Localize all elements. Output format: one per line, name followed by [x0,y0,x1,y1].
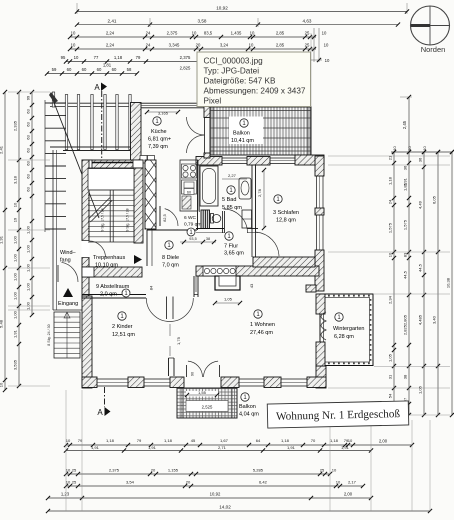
svg-text:10,41 qm: 10,41 qm [231,138,254,144]
balcony (bottom) deck [177,388,237,418]
svg-text:58: 58 [127,67,132,72]
svg-text:1,23: 1,23 [61,491,70,496]
svg-text:10: 10 [66,438,71,443]
svg-text:10: 10 [71,31,76,36]
svg-text:3,58: 3,58 [198,18,207,23]
top dimension chain row 3 [68,31,327,39]
wall: Schlafen south / Flur (y=257) [253,257,315,267]
section line A bottom marker [97,387,110,417]
door arc Schlafen [252,232,279,257]
svg-text:1,85: 1,85 [403,182,408,191]
svg-text:79: 79 [137,438,142,443]
svg-text:1,75: 1,75 [176,336,181,345]
svg-text:1,18: 1,18 [388,176,393,185]
pergola posts [50,92,133,151]
wintergarten west wall segments [316,294,325,366]
svg-text:2,78: 2,78 [257,188,262,197]
balcony (top) label plate [229,117,263,145]
svg-text:2,0 qm: 2,0 qm [100,292,117,298]
svg-text:9 Stg. 17,5 / 28: 9 Stg. 17,5 / 28 [126,208,130,231]
svg-text:63: 63 [26,135,31,140]
svg-text:1,91: 1,91 [287,445,296,450]
svg-text:10: 10 [192,31,197,36]
top dimension chain row 1 (10,92) [75,3,409,14]
svg-text:10,92: 10,92 [216,6,228,11]
wall stub Diele east jamb [194,276,198,297]
top-right guide verticals and 10 stub [311,28,330,107]
pergola top rail [50,103,133,106]
svg-text:1,00: 1,00 [13,310,18,319]
wall: west exterior (kinder) lower [82,296,92,388]
right dimension column A (x=394) [388,150,397,417]
svg-text:84: 84 [149,285,154,290]
wall: horizontal band below Treppenhaus (y=267) [82,267,142,277]
door windfang to treppenhaus [82,241,106,258]
svg-text:60: 60 [97,67,102,72]
svg-text:2,41: 2,41 [108,18,117,23]
section line A top marker [94,83,107,161]
svg-text:93,5: 93,5 [189,237,196,241]
svg-text:3,65 qm: 3,65 qm [224,251,244,257]
wintergarten top wall link [306,285,316,292]
left dimension column B (x=19) [13,90,22,388]
svg-text:1,18: 1,18 [164,438,173,443]
svg-text:1,05: 1,05 [388,353,393,362]
balcony (top) deck with railing [210,107,311,155]
Treppenhaus label and arrow [93,255,142,269]
room label Bad [222,173,247,211]
svg-text:1,00: 1,00 [26,225,31,234]
svg-text:25: 25 [72,467,77,472]
svg-text:70: 70 [311,438,316,443]
svg-text:60: 60 [82,67,87,72]
svg-text:Küche: Küche [151,129,167,135]
svg-text:A: A [97,408,103,417]
svg-text:31: 31 [388,374,393,379]
duct niche below wall [196,276,254,292]
svg-text:8 Stg. 24 / 30: 8 Stg. 24 / 30 [47,324,51,345]
svg-text:2,27: 2,27 [228,173,237,178]
svg-text:60: 60 [187,190,191,194]
svg-text:1,05: 1,05 [418,385,423,394]
svg-text:4,485: 4,485 [418,314,423,325]
svg-text:10: 10 [13,202,18,207]
bottom dimension chain row 5 [46,491,373,500]
extension lines bottom [66,390,430,511]
svg-text:2,335: 2,335 [13,120,18,131]
svg-text:83: 83 [403,252,408,257]
svg-text:7,0 qm: 7,0 qm [162,263,179,269]
svg-text:6,05: 6,05 [432,195,437,204]
wall: Bad/WC south + hatched pier [196,210,258,233]
room label Flur [224,232,244,257]
bottom dimension chain row 6 (14,02) [46,504,432,513]
chimney X-hatched column [145,160,156,229]
svg-text:1,18: 1,18 [114,55,123,60]
svg-text:2,45: 2,45 [402,120,407,129]
left dimension column C (x=5) [0,90,7,392]
bad washbasin [239,178,251,199]
kitchen counter with stove and sink [180,160,198,211]
svg-text:12,51 qm: 12,51 qm [112,332,135,338]
svg-text:1,575: 1,575 [388,222,393,233]
svg-text:10: 10 [332,467,337,472]
svg-text:14,02: 14,02 [219,504,231,509]
top dimension chain row 4 [68,28,330,107]
opening squiggle between Wohnen and Wintergarten [321,312,326,340]
svg-text:63: 63 [26,122,31,127]
door Diele-Kinder double swing [146,297,193,322]
svg-text:2,00: 2,00 [344,491,353,496]
svg-text:10: 10 [336,479,341,484]
svg-text:2,85: 2,85 [276,43,285,48]
svg-text:10,92: 10,92 [210,491,221,496]
svg-text:2,17: 2,17 [348,479,357,484]
svg-text:3,40: 3,40 [432,315,437,324]
bottom dimension chain row 1 [64,438,414,447]
svg-text:12,8 qm: 12,8 qm [276,218,296,224]
svg-text:38: 38 [403,374,408,379]
svg-text:Eingang: Eingang [58,301,78,307]
svg-text:1,18: 1,18 [106,438,115,443]
svg-text:1,05: 1,05 [224,297,233,302]
svg-text:1,00: 1,00 [26,282,31,291]
svg-text:10: 10 [388,252,393,257]
svg-text:24: 24 [388,199,393,204]
svg-text:24: 24 [146,31,151,36]
svg-text:2,41: 2,41 [0,145,4,154]
top-right vertical dimension (2,45) [400,95,412,152]
svg-text:1,00: 1,00 [13,253,18,262]
stair flights [88,190,134,242]
svg-text:3,18: 3,18 [13,175,18,184]
svg-text:3,165: 3,165 [158,111,169,116]
svg-text:4,63: 4,63 [303,18,312,23]
svg-text:2,24: 2,24 [106,43,115,48]
svg-text:2 Kinder: 2 Kinder [112,324,133,330]
svg-text:63: 63 [26,148,31,153]
svg-text:3,535: 3,535 [13,359,18,370]
wall: Bad east / Schlafen west [252,165,256,232]
svg-text:1,18: 1,18 [281,438,290,443]
svg-text:1,55: 1,55 [198,390,207,395]
svg-text:10: 10 [249,43,254,48]
svg-text:3 Schlafen: 3 Schlafen [273,210,299,216]
svg-text:77: 77 [94,55,99,60]
svg-text:5 Bad: 5 Bad [222,197,236,203]
svg-text:5,85 qm: 5,85 qm [222,205,242,211]
right dimension column D (x=438) [432,150,441,417]
svg-text:7 Flur: 7 Flur [224,244,238,250]
svg-text:2,805: 2,805 [403,314,408,325]
right dimension column B (x=409) [403,150,412,417]
svg-text:10: 10 [407,146,412,151]
svg-text:1,435: 1,435 [231,31,242,36]
svg-text:6,28 qm: 6,28 qm [334,334,354,340]
svg-text:95: 95 [61,55,66,60]
svg-text:2,375: 2,375 [167,31,178,36]
svg-text:9 Stg. 17,5 / 28: 9 Stg. 17,5 / 28 [101,208,105,231]
svg-text:25: 25 [305,31,310,36]
svg-text:2,34: 2,34 [388,295,393,304]
ramp diagonal brace [53,100,99,218]
room label Abstellraum [96,284,130,298]
svg-text:5,48: 5,48 [0,319,4,328]
room label Schlafen with dim 2,78 [257,168,299,230]
svg-text:Balkon: Balkon [233,131,250,137]
svg-text:60: 60 [112,67,117,72]
wintergarten labels [333,313,365,340]
svg-text:1,00: 1,00 [13,235,18,244]
wall: stairwell north exterior [82,160,143,168]
svg-text:1,00: 1,00 [26,263,31,272]
bathtub [200,166,218,206]
wall: Bad west (kitchen counter wall) [198,160,200,230]
svg-text:1,91: 1,91 [13,329,18,338]
svg-text:Balkon: Balkon [239,404,256,410]
wall: south exterior with window piers [82,377,326,388]
svg-text:2,525: 2,525 [202,405,213,410]
svg-text:27,46 qm: 27,46 qm [250,330,273,336]
top dimension chain row 6 (59 60 60 60 60 58) [45,63,139,76]
balcony (bottom) label [239,393,259,418]
svg-text:1,91: 1,91 [91,445,100,450]
svg-text:5,285: 5,285 [253,467,264,472]
svg-text:8 Diele: 8 Diele [162,255,179,261]
top dimension chain row 5 (95 10 77 1,18 79 2,375/2,825) [61,55,234,70]
svg-text:36: 36 [403,165,408,170]
svg-text:1,00: 1,00 [13,291,18,300]
svg-text:1,91: 1,91 [341,445,350,450]
wall: east exterior lower (below wintergarten) [316,366,326,388]
wall: east exterior upper (Schlafen) with windows [315,156,324,291]
svg-text:2,375: 2,375 [180,55,191,60]
bottom dimension chain row 2 [64,445,373,453]
svg-text:24: 24 [146,43,151,48]
svg-text:1,91: 1,91 [148,445,157,450]
svg-text:44,5: 44,5 [403,270,408,279]
svg-text:43: 43 [249,283,254,288]
svg-text:1,91: 1,91 [0,235,4,244]
bottom dimension chain row 3 [64,467,337,476]
windfang west wall lines [53,150,82,310]
svg-text:6 WC: 6 WC [184,215,197,221]
svg-text:10: 10 [250,31,255,36]
svg-text:25: 25 [305,43,310,48]
svg-text:79: 79 [136,55,141,60]
svg-text:63: 63 [26,187,31,192]
svg-text:Wintergarten: Wintergarten [333,326,365,332]
svg-text:45: 45 [191,438,196,443]
dim 1,05 under duct [213,297,242,306]
svg-text:1,575: 1,575 [403,219,408,230]
svg-text:Abmessungen: 2409 x 3437: Abmessungen: 2409 x 3437 [204,87,306,96]
svg-text:10: 10 [322,31,327,36]
svg-text:1,67: 1,67 [220,438,229,443]
svg-text:A: A [94,83,100,92]
balcony door french doors [187,361,220,377]
svg-text:63: 63 [26,174,31,179]
svg-text:1,00: 1,00 [26,301,31,310]
exterior entrance steps [47,312,80,358]
room label Wohnen [250,310,275,336]
svg-text:25: 25 [72,479,77,484]
svg-text:CCI_000003.jpg: CCI_000003.jpg [204,57,264,66]
svg-text:64: 64 [256,438,261,443]
ramp rungs (left ladder) [45,100,66,232]
svg-text:1,00: 1,00 [13,272,18,281]
wall: horizontal band Flur/Wohnen (y=266) with duct [196,266,319,276]
svg-text:Treppenhaus: Treppenhaus [93,255,125,261]
svg-text:2,825: 2,825 [180,66,191,71]
svg-text:10: 10 [74,55,79,60]
wall stub Kinder/Wohnen divider [169,324,182,376]
svg-text:82,5: 82,5 [163,214,167,221]
svg-text:3,24: 3,24 [220,43,229,48]
stair landing [88,169,134,191]
svg-text:25: 25 [320,467,325,472]
svg-text:44,5: 44,5 [418,263,423,272]
wintergarten glazed walls [320,294,373,366]
svg-text:Typ: JPG-Datei: Typ: JPG-Datei [204,67,260,76]
svg-text:Wind–: Wind– [60,250,77,256]
svg-text:20: 20 [151,467,156,472]
bad cabinet [242,210,252,228]
svg-text:10: 10 [66,479,71,484]
svg-text:1,18: 1,18 [330,438,339,443]
svg-text:2,71: 2,71 [218,445,227,450]
windfang door arc [58,262,78,282]
right dimension column C (x=424) [418,150,427,417]
svg-text:1,00: 1,00 [26,244,31,253]
svg-text:4,04 qm: 4,04 qm [239,412,259,418]
svg-text:19: 19 [13,217,18,222]
north compass [411,6,450,54]
left dimension column A (x=32, 63-steps) [26,90,35,317]
kitchen lower partition walls [147,230,197,266]
WC room label and toilet [184,214,221,237]
entrance arrow and label [58,288,78,307]
svg-text:3,345: 3,345 [169,43,180,48]
svg-text:54: 54 [388,393,393,398]
svg-text:2,85: 2,85 [276,31,285,36]
tooltip file info box [197,52,311,107]
svg-text:59: 59 [52,67,57,72]
kitchen french doors to balcony [187,117,211,158]
right dimension column E (x=452) [446,150,454,417]
svg-text:7,39 qm: 7,39 qm [148,144,168,150]
svg-text:10: 10 [422,146,427,151]
svg-text:90: 90 [191,372,195,376]
top dimension chain row 2 (2,41 3,58 4,63) [75,18,400,27]
room label Kinder [112,312,135,338]
svg-text:10,38: 10,38 [446,277,451,288]
svg-text:20: 20 [186,479,191,484]
svg-text:2,00: 2,00 [379,438,388,443]
svg-text:63: 63 [26,109,31,114]
svg-text:2,375: 2,375 [109,467,120,472]
svg-text:1,155: 1,155 [168,467,179,472]
svg-text:10: 10 [392,146,397,151]
svg-text:2,24: 2,24 [106,31,115,36]
room label Diele [162,241,179,269]
svg-text:2,825: 2,825 [403,324,408,335]
svg-text:1 Wohnen: 1 Wohnen [250,322,275,328]
svg-text:10: 10 [324,43,329,48]
bottom dimension chain row 4 [64,479,365,488]
svg-text:10: 10 [348,438,353,443]
room label Kueche [148,117,171,150]
svg-text:Dateigröße: 547 KB: Dateigröße: 547 KB [204,77,276,86]
svg-text:6,81 qm+: 6,81 qm+ [148,137,171,143]
right-side horizontal connector row and 10 labels [391,146,454,155]
svg-text:0,79 qm: 0,79 qm [184,222,201,228]
svg-text:83,5: 83,5 [204,31,213,36]
svg-text:99: 99 [26,95,31,100]
wall: north exterior under balcony (Bad/Schlafen) with windows [196,155,324,165]
svg-text:Norden: Norden [421,45,446,54]
extension lines left [8,92,50,386]
bad door [223,209,248,233]
svg-text:63: 63 [26,161,31,166]
svg-text:1,81: 1,81 [103,63,112,68]
svg-text:3,54: 3,54 [126,479,135,484]
wall: stairwell east (with chimney) [134,168,143,243]
svg-text:10: 10 [71,43,76,48]
title box Wohnung Nr. 1 Erdgeschoss [267,401,409,428]
svg-text:60: 60 [67,67,72,72]
svg-text:6,42: 6,42 [259,479,268,484]
svg-text:10: 10 [325,58,330,63]
svg-text:10: 10 [66,467,71,472]
svg-text:10: 10 [0,382,4,387]
apartment entry door from stairwell [160,206,178,226]
wall: kitchen north exterior with window [131,103,211,164]
svg-text:20: 20 [196,43,201,48]
svg-text:38: 38 [206,237,210,241]
wall: west exterior (stairwell/abstellraum) [82,160,89,300]
wall: Abstellraum south / Kinder north (y=296) [82,295,146,299]
extension lines right [328,156,450,415]
windfang label [60,250,77,264]
Flur dims 93,5 and 38 [180,237,216,244]
svg-text:36: 36 [418,157,423,162]
svg-text:Pixel: Pixel [204,97,222,106]
svg-text:4,49: 4,49 [418,200,423,209]
svg-text:10,10 qm: 10,10 qm [95,263,118,269]
